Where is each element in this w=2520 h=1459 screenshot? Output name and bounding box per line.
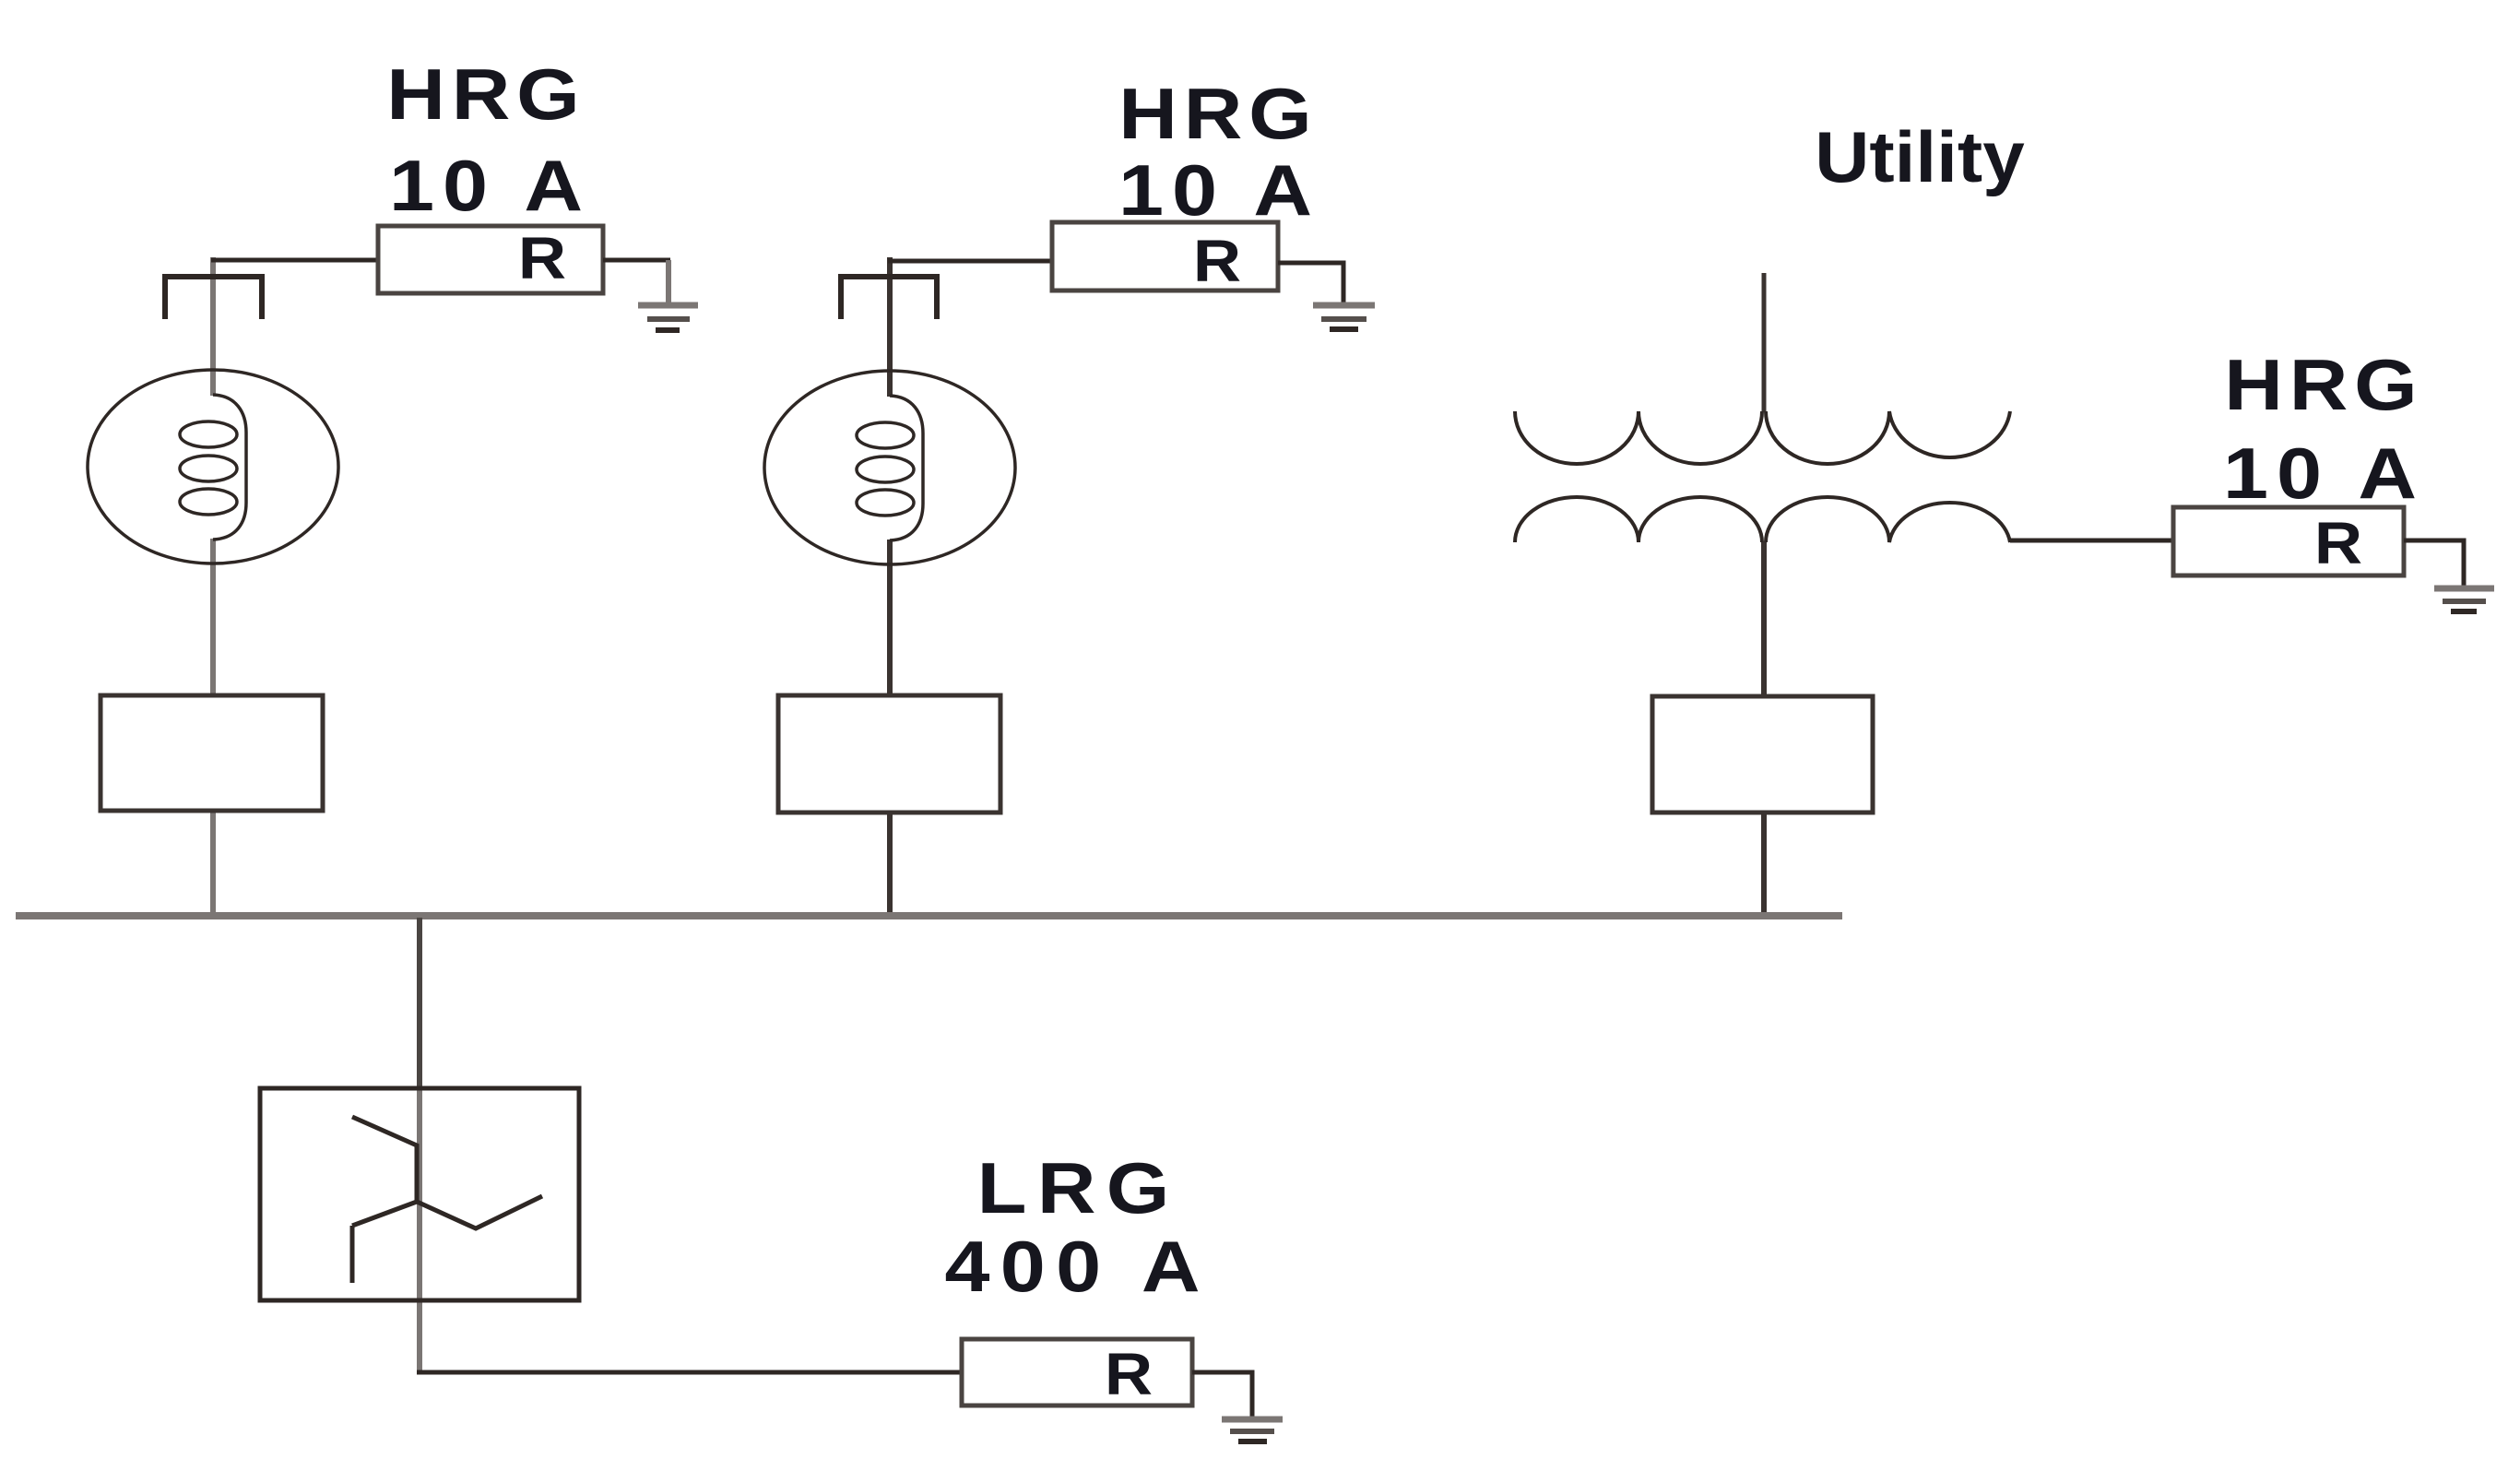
wire R4 to ground — [1192, 1372, 1252, 1418]
wire G1 junction to resistor R1 — [211, 258, 378, 263]
label 10 A (G2 grounding resistor rating) — [1118, 150, 1320, 231]
ground symbol (LRG) — [1222, 1419, 1283, 1441]
ground symbol (G2 HRG) — [1313, 305, 1375, 329]
svg-text:10 A: 10 A — [2223, 433, 2425, 514]
wire bus to grounding transformer and to resistor R4 — [417, 918, 962, 1372]
label 400 A — [944, 1227, 1210, 1307]
resistor R1 (HRG 10 A) — [378, 226, 603, 293]
svg-text:HRG: HRG — [1118, 74, 1318, 154]
transformer T1 secondary winding — [1515, 497, 2010, 542]
generator G2 (circle with winding) — [764, 371, 1015, 564]
label HRG (utility grounding resistor) — [2224, 345, 2423, 425]
wire transformer secondary neutral to breaker CB3 — [1761, 542, 1767, 913]
circuit breaker CB2 (G2) — [778, 695, 1000, 813]
wire transformer tail to resistor R3 — [2010, 539, 2173, 543]
svg-text:10 A: 10 A — [1118, 150, 1320, 231]
grounding transformer GT enclosure — [260, 1088, 579, 1300]
wire utility incoming (top) — [1762, 273, 1767, 411]
svg-text:LRG: LRG — [977, 1148, 1180, 1228]
svg-text:400 A: 400 A — [944, 1227, 1210, 1307]
wire G2 neutral vertical (junction to breaker CB2) — [887, 257, 893, 913]
wire G2 junction to resistor R2 — [888, 259, 1052, 264]
resistor R2 (HRG 10 A) — [1052, 222, 1278, 291]
label HRG (G2 grounding resistor) — [1118, 74, 1318, 154]
ground symbol (G1 HRG) — [638, 305, 698, 330]
circuit breaker CB3 (utility) — [1652, 696, 1873, 813]
neutral bracket symbol G1 — [165, 277, 262, 319]
grounding transformer zigzag winding — [352, 1117, 542, 1283]
svg-text:10 A: 10 A — [389, 146, 591, 226]
label Utility — [1815, 117, 2025, 197]
svg-text:HRG: HRG — [2224, 345, 2423, 425]
value label R (R4) — [1105, 1342, 1153, 1407]
wire G1 neutral vertical (junction to breaker CB1) — [210, 257, 216, 913]
label 10 A (G1 grounding resistor rating) — [389, 146, 591, 226]
wire R2 to ground — [1278, 263, 1343, 304]
resistor R3 (HRG 10 A) — [2173, 507, 2404, 575]
wire R3 to ground — [2404, 540, 2464, 587]
svg-text:R: R — [1105, 1342, 1153, 1407]
label HRG (G1 grounding resistor) — [386, 54, 586, 135]
wire R1 to ground — [603, 260, 670, 304]
value label R (R2) — [1193, 229, 1241, 294]
main bus — [16, 912, 1842, 919]
value label R (R1) — [518, 226, 566, 291]
label 10 A (utility grounding resistor rating) — [2223, 433, 2425, 514]
transformer T1 primary winding — [1515, 411, 2010, 464]
svg-text:R: R — [1193, 229, 1241, 294]
label LRG — [977, 1148, 1180, 1228]
generator G1 (circle with winding) — [88, 370, 338, 563]
svg-text:R: R — [518, 226, 566, 291]
resistor R4 (LRG 400 A) — [962, 1339, 1192, 1406]
circuit breaker CB1 (G1) — [101, 695, 323, 811]
svg-text:Utility: Utility — [1815, 117, 2025, 197]
ground symbol (utility HRG) — [2434, 588, 2494, 611]
svg-text:HRG: HRG — [386, 54, 586, 135]
svg-text:R: R — [2314, 511, 2362, 576]
neutral bracket symbol G2 — [841, 277, 937, 319]
value label R (R3) — [2314, 511, 2362, 576]
